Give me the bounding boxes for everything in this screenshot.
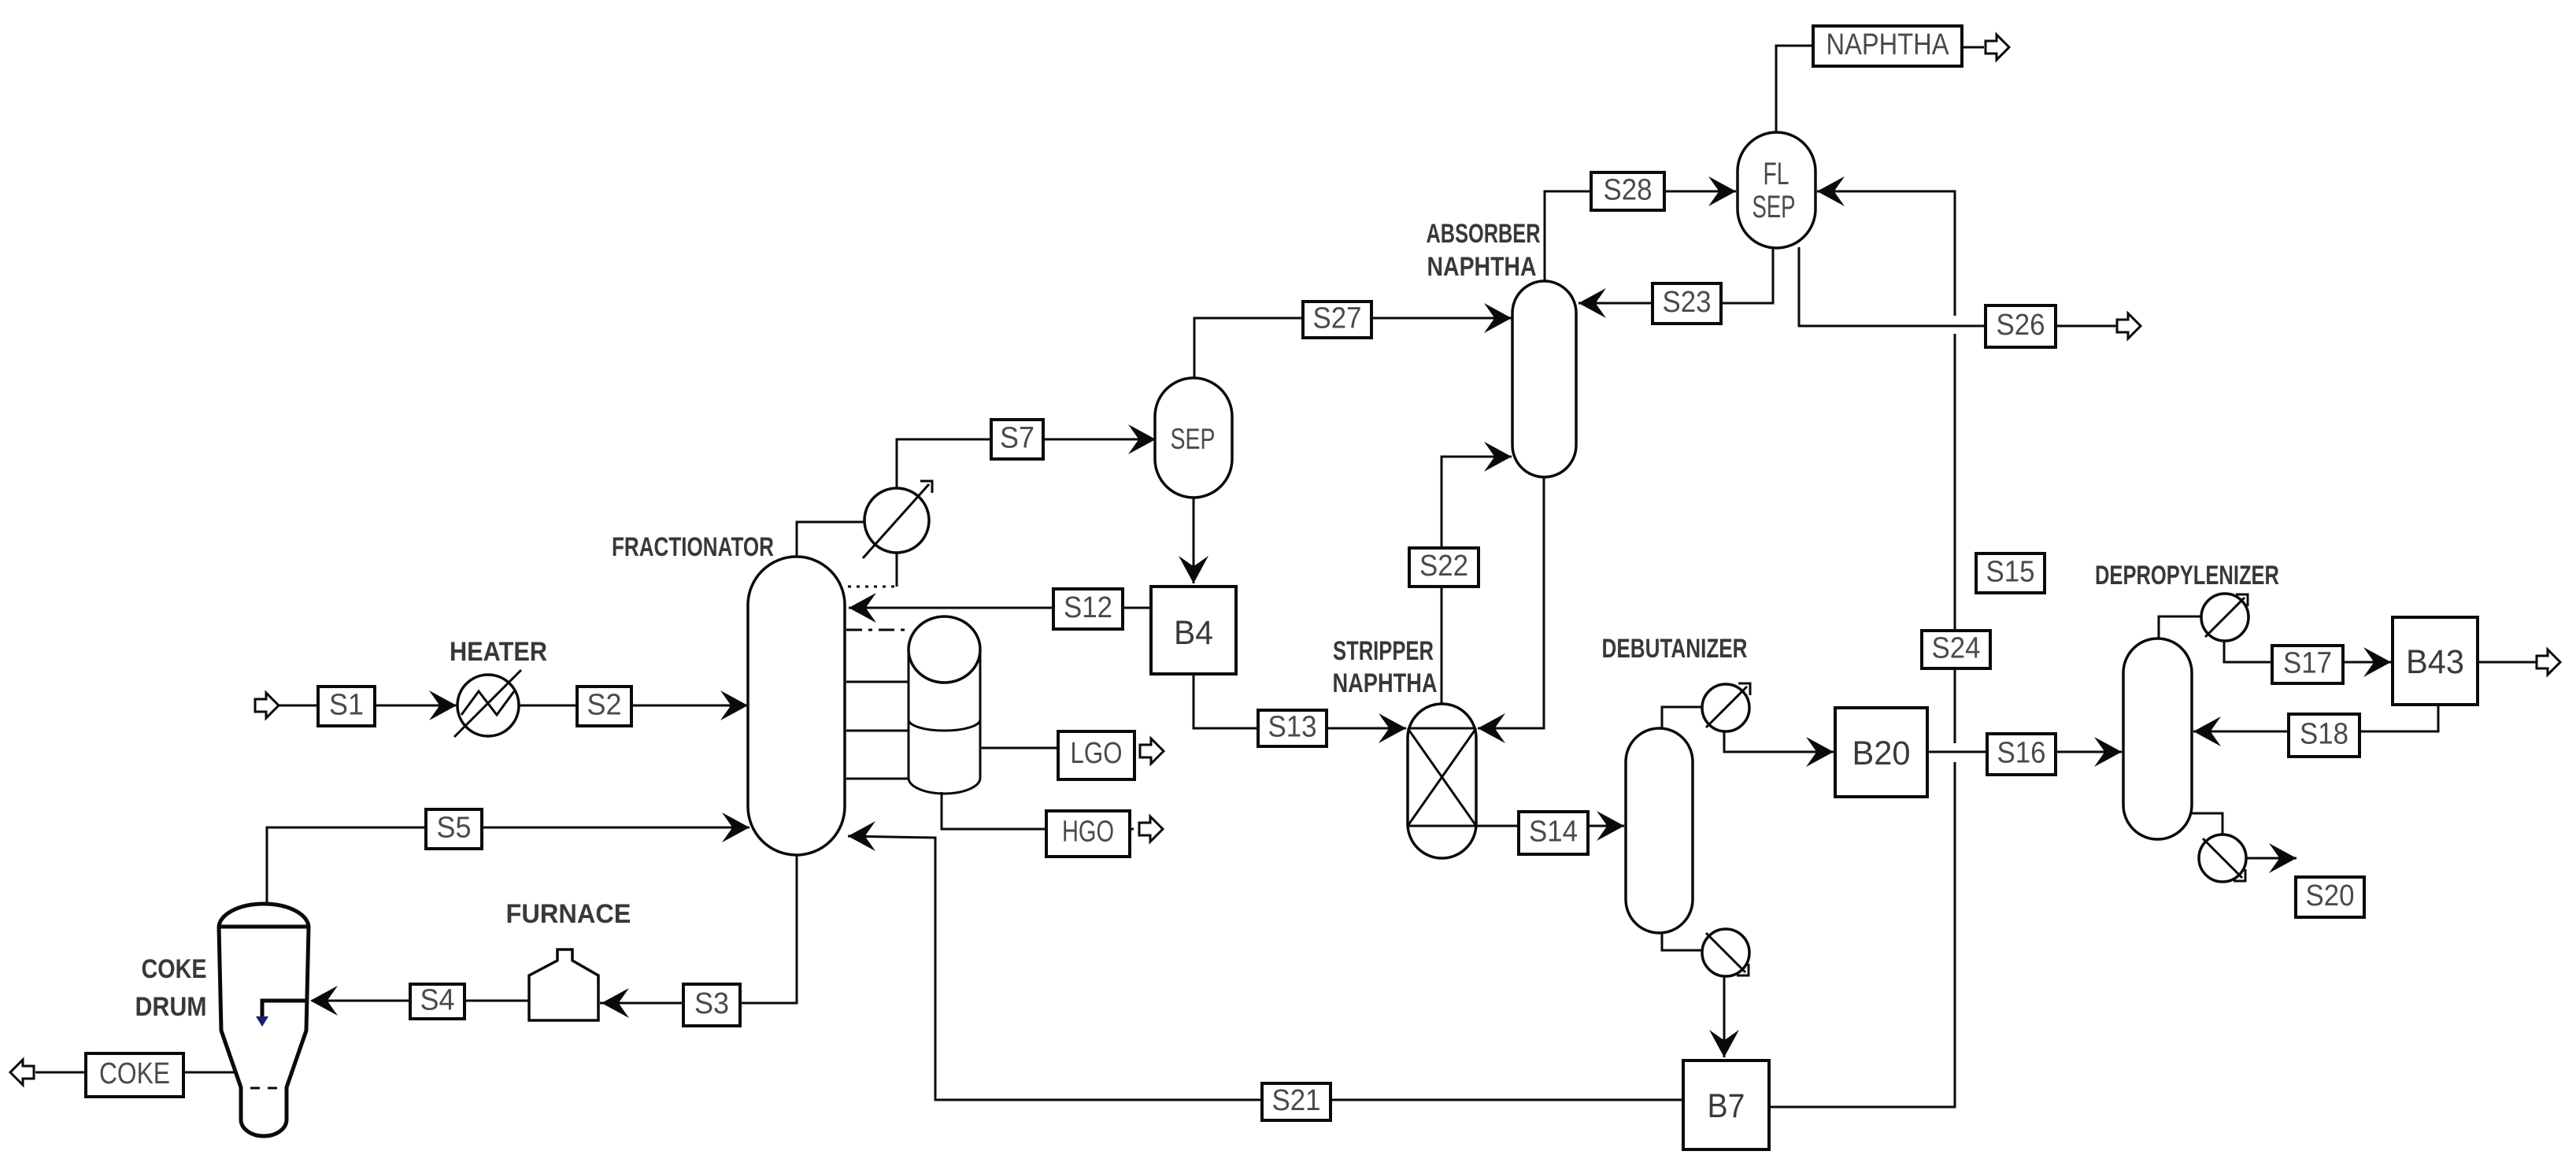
block B4 bbox=[1151, 587, 1236, 674]
svg-text:SEP: SEP bbox=[1752, 190, 1796, 224]
condenser of depropylenizer bbox=[2201, 594, 2248, 641]
reboiler of debutanizer bbox=[1702, 929, 1749, 976]
stream label COKE bbox=[86, 1053, 183, 1097]
wire debutanizer overhead bbox=[1662, 707, 1704, 730]
wire condenser return dotted bbox=[847, 586, 894, 588]
stream label S18 bbox=[2289, 714, 2359, 757]
wire S18 B43 recycle to depropylenizer bbox=[2193, 705, 2438, 731]
svg-text:B7: B7 bbox=[1708, 1087, 1745, 1125]
condenser of fractionator bbox=[863, 481, 932, 558]
svg-text:ABSORBER: ABSORBER bbox=[1427, 219, 1541, 249]
svg-text:HGO: HGO bbox=[1062, 816, 1114, 849]
svg-text:HEATER: HEATER bbox=[450, 637, 547, 667]
svg-text:S5: S5 bbox=[437, 812, 472, 845]
svg-text:DEPROPYLENIZER: DEPROPYLENIZER bbox=[2095, 561, 2279, 590]
svg-text:S24: S24 bbox=[1932, 632, 1981, 665]
svg-text:B43: B43 bbox=[2406, 643, 2464, 681]
wire COKE outlet line bbox=[183, 1072, 234, 1074]
wire S24 riser top bbox=[1817, 191, 1955, 316]
stream label S28 bbox=[1591, 172, 1664, 210]
svg-text:S16: S16 bbox=[1997, 737, 2046, 770]
svg-text:DRUM: DRUM bbox=[135, 992, 207, 1022]
wire S2 heater to fractionator bbox=[519, 705, 748, 707]
wire depropylenizer overhead bbox=[2159, 616, 2203, 639]
wire S13 B4 to stripper bbox=[1194, 674, 1406, 728]
wire SEP liquid to B4 bbox=[1193, 497, 1195, 583]
svg-text:S23: S23 bbox=[1663, 286, 1712, 319]
svg-text:STRIPPER: STRIPPER bbox=[1333, 636, 1434, 666]
svg-text:B20: B20 bbox=[1852, 735, 1911, 772]
stream label S23 bbox=[1653, 283, 1721, 324]
heater HEATER bbox=[454, 670, 521, 737]
stream label LGO bbox=[1058, 731, 1134, 779]
stream label S5 bbox=[426, 809, 482, 849]
stream label HGO bbox=[1046, 811, 1130, 857]
svg-text:COKE: COKE bbox=[99, 1057, 170, 1090]
wire debutanizer condenser to B20 bbox=[1724, 731, 1834, 752]
block B43 bbox=[2393, 617, 2478, 705]
svg-text:SEP: SEP bbox=[1171, 423, 1216, 455]
svg-text:S20: S20 bbox=[2306, 879, 2355, 912]
wire S17 condenser to B43 bbox=[2224, 640, 2391, 662]
stream label S17 bbox=[2272, 646, 2343, 683]
wire condenser return stub bbox=[896, 552, 898, 587]
wire HGO outlet stub bbox=[1128, 828, 1134, 831]
svg-text:FL: FL bbox=[1764, 157, 1790, 191]
column STRIPPER NAPHTHA bbox=[1408, 704, 1476, 858]
wire S12 B4 to fractionator reflux bbox=[849, 607, 1151, 609]
svg-text:S26: S26 bbox=[1997, 309, 2045, 342]
wire HGO draw line bbox=[942, 792, 1047, 829]
svg-text:NAPHTHA: NAPHTHA bbox=[1333, 668, 1438, 698]
wire fractionator overhead to condenser bbox=[797, 522, 866, 558]
wire LGO outlet stub bbox=[1134, 747, 1135, 750]
reboiler of depropylenizer bbox=[2199, 835, 2246, 882]
wire naphtha outlet stub bbox=[1962, 46, 1984, 49]
wire S20 reboiler outlet bbox=[2245, 857, 2297, 860]
wire S24 riser B7 to flash sep bbox=[1769, 762, 1955, 1107]
wire S22 stripper overhead to absorber bbox=[1442, 457, 1512, 705]
svg-text:S2: S2 bbox=[587, 689, 622, 722]
stream label S20 bbox=[2296, 877, 2364, 917]
stream label S26 bbox=[1986, 305, 2056, 347]
svg-text:S28: S28 bbox=[1604, 174, 1653, 207]
inlet feed arrow bbox=[255, 693, 279, 718]
svg-text:S27: S27 bbox=[1313, 302, 1362, 335]
svg-text:S7: S7 bbox=[1000, 422, 1034, 455]
wire coke drum internal inlet bbox=[262, 1001, 309, 1017]
stream label NAPHTHA bbox=[1813, 26, 1962, 66]
block B7 bbox=[1683, 1061, 1769, 1149]
wire S1 feed bbox=[279, 705, 457, 707]
svg-text:S17: S17 bbox=[2283, 647, 2332, 680]
stream label S1 bbox=[318, 687, 375, 726]
stream label S13 bbox=[1258, 710, 1327, 746]
stream label S24 bbox=[1922, 631, 1990, 668]
wire naphtha product line bbox=[1776, 46, 1813, 133]
stream label S22 bbox=[1409, 548, 1479, 587]
wire S7 condenser to SEP bbox=[897, 439, 1156, 489]
wire S4 furnace to coke drum bbox=[312, 1000, 529, 1002]
svg-text:S14: S14 bbox=[1529, 816, 1578, 849]
column DEBUTANIZER bbox=[1626, 728, 1693, 933]
wire LGO draw line bbox=[980, 747, 1058, 750]
svg-text:NAPHTHA: NAPHTHA bbox=[1827, 28, 1950, 61]
wire S5 drum overhead to fractionator bbox=[267, 827, 749, 904]
stream label S15 bbox=[1976, 553, 2045, 593]
column DEPROPYLENIZER bbox=[2123, 639, 2192, 839]
svg-text:FRACTIONATOR: FRACTIONATOR bbox=[612, 532, 774, 562]
stream label S3 bbox=[683, 984, 740, 1026]
vessel SEP bbox=[1155, 378, 1232, 498]
svg-text:LGO: LGO bbox=[1071, 737, 1123, 770]
vessel FL SEP bbox=[1738, 132, 1815, 248]
stream label S21 bbox=[1262, 1083, 1331, 1120]
node coke drum inlet arrow bbox=[256, 1016, 268, 1027]
fractionator side stripper drums bbox=[909, 616, 980, 794]
svg-text:COKE: COKE bbox=[142, 954, 207, 984]
wire S23 flash sep liquid to absorber bbox=[1579, 247, 1773, 303]
vessel COKE DRUM bbox=[219, 904, 309, 1136]
svg-text:S15: S15 bbox=[1986, 556, 2035, 589]
stream label S14 bbox=[1519, 812, 1588, 854]
column FRACTIONATOR bbox=[748, 557, 845, 855]
wire S16 B20 to depropylenizer bbox=[1927, 751, 2122, 753]
svg-text:FURNACE: FURNACE bbox=[506, 899, 631, 929]
wire depropylenizer bottoms to reboiler bbox=[2192, 813, 2223, 834]
wire S24 riser mid bbox=[1954, 334, 1956, 743]
furnace FURNACE bbox=[529, 949, 598, 1020]
wire COKE outlet stub bbox=[35, 1072, 86, 1074]
svg-text:S4: S4 bbox=[420, 984, 455, 1017]
wire B43 outlet bbox=[2478, 661, 2537, 664]
svg-text:S3: S3 bbox=[694, 987, 729, 1020]
condenser of debutanizer bbox=[1702, 683, 1750, 731]
wire S27 SEP vapor to absorber bbox=[1194, 318, 1512, 379]
svg-text:S18: S18 bbox=[2300, 718, 2348, 751]
svg-text:DEBUTANIZER: DEBUTANIZER bbox=[1602, 634, 1748, 664]
svg-text:S13: S13 bbox=[1268, 711, 1317, 744]
svg-text:S12: S12 bbox=[1064, 591, 1112, 624]
svg-text:B4: B4 bbox=[1174, 614, 1213, 652]
svg-text:S21: S21 bbox=[1272, 1084, 1321, 1117]
svg-text:NAPHTHA: NAPHTHA bbox=[1427, 252, 1537, 282]
block B20 bbox=[1835, 708, 1927, 797]
wire S26 flash sep outlet bbox=[1799, 247, 2116, 326]
stream label S16 bbox=[1987, 734, 2056, 775]
svg-text:S22: S22 bbox=[1419, 550, 1468, 583]
wire S14 stripper bottoms to debutanizer bbox=[1476, 825, 1624, 827]
wire debutanizer bottoms to reboiler bbox=[1662, 928, 1704, 950]
fractionator side-draw tray lines bbox=[846, 630, 909, 779]
wire S28 absorber overhead to flash sep bbox=[1545, 191, 1736, 282]
wire S3 fractionator bottoms to furnace bbox=[600, 855, 797, 1003]
wire reboiler to B7 bbox=[1723, 976, 1726, 1057]
stream label S12 bbox=[1053, 589, 1123, 629]
column ABSORBER NAPHTHA bbox=[1512, 281, 1576, 477]
stream label S7 bbox=[991, 420, 1043, 459]
stream label S4 bbox=[410, 984, 464, 1019]
stream label S2 bbox=[577, 687, 631, 726]
svg-text:S1: S1 bbox=[329, 689, 364, 722]
stream label S27 bbox=[1303, 302, 1371, 338]
wire absorber bottoms to stripper bbox=[1478, 476, 1544, 728]
wire S21 B7 recycle to fractionator bbox=[848, 836, 1683, 1100]
